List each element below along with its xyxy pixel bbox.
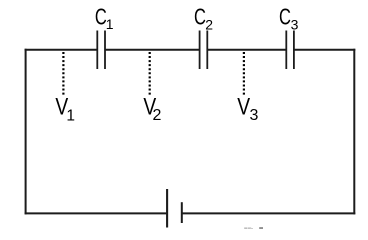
svg-text:3: 3 bbox=[291, 16, 299, 32]
svg-text:C: C bbox=[194, 5, 206, 30]
svg-text:1: 1 bbox=[66, 107, 75, 124]
svg-text:2: 2 bbox=[152, 107, 161, 124]
svg-text:3: 3 bbox=[249, 107, 258, 124]
svg-text:1: 1 bbox=[106, 16, 114, 32]
svg-text:V: V bbox=[237, 92, 250, 120]
svg-text:2: 2 bbox=[205, 16, 213, 32]
svg-text:C: C bbox=[279, 5, 291, 30]
